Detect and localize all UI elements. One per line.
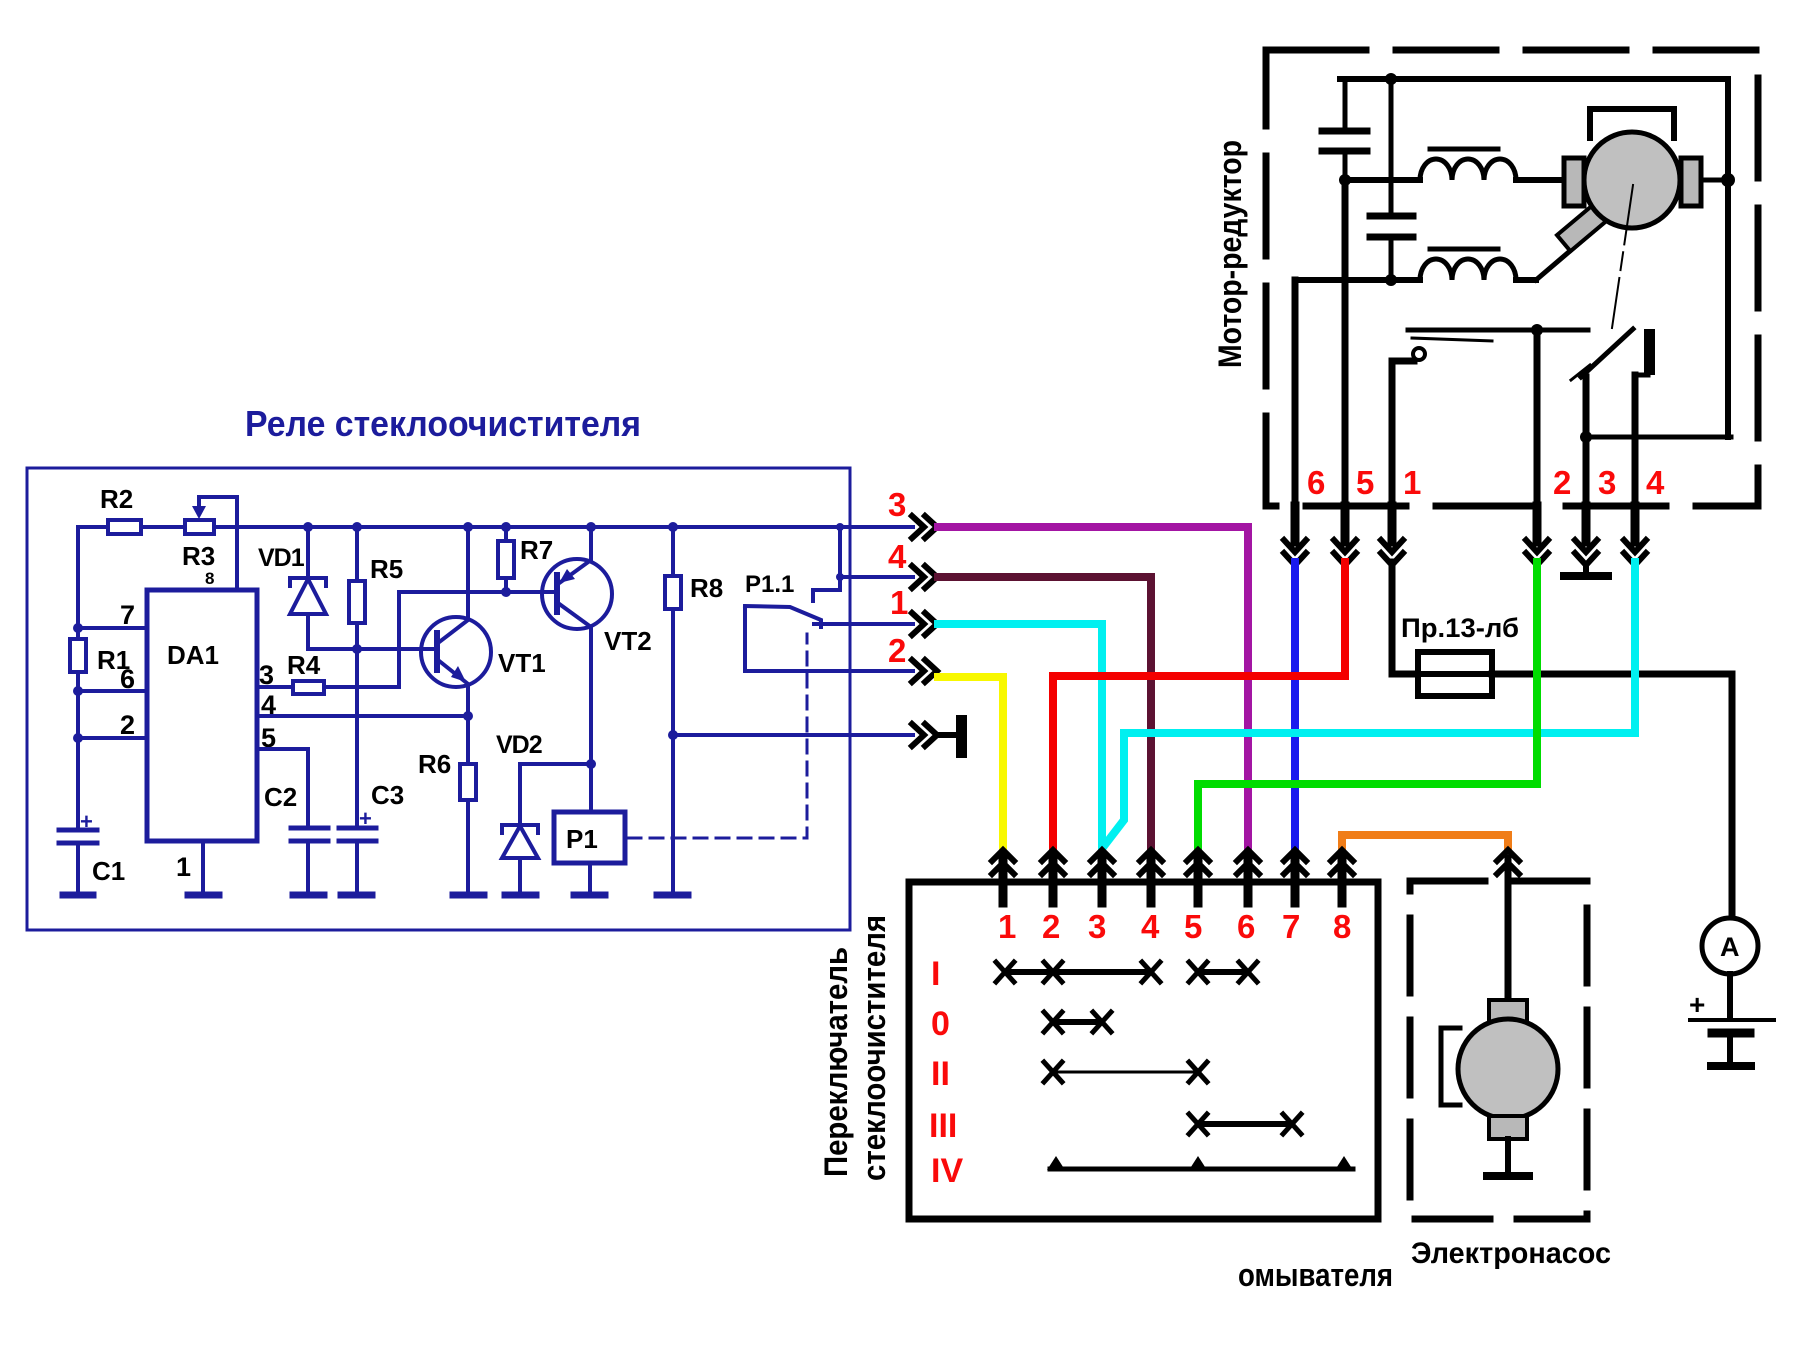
- electric pump dashed box: [1410, 881, 1587, 1219]
- row label I: [931, 955, 940, 993]
- svg-text:R5: R5: [370, 554, 403, 584]
- node pin6: [73, 686, 147, 696]
- arrow ground out: [912, 724, 937, 746]
- pin stub 3: [1582, 506, 1591, 542]
- svg-text:+: +: [359, 806, 372, 831]
- parking contact wiper bars: [1408, 330, 1588, 341]
- pin number 2: [1553, 464, 1571, 501]
- RELAY-BLOCK-START: [27, 403, 967, 930]
- row II contact line: [1044, 1062, 1207, 1082]
- svg-text:2: 2: [120, 710, 135, 740]
- arrow sw2 up: [1042, 850, 1064, 874]
- arrow pin3 down: [1575, 540, 1597, 565]
- arrow pin1 down: [1381, 540, 1403, 565]
- ammeter A: [1702, 918, 1758, 974]
- ground VD2: [505, 892, 536, 899]
- capacitor motor C-mid: [1370, 73, 1413, 286]
- svg-text:3: 3: [1598, 464, 1616, 501]
- pin number sw5: [1184, 908, 1202, 945]
- svg-text:стеклоочистителя: стеклоочистителя: [856, 915, 892, 1181]
- svg-text:6: 6: [120, 664, 135, 694]
- inductor L2: [1420, 249, 1516, 280]
- label Электронасос: [1411, 1237, 1611, 1270]
- stator bracket: [1590, 109, 1674, 138]
- pump motor top block: [1489, 1000, 1527, 1023]
- arrow out1: [912, 613, 937, 635]
- wire: +12V bus: [78, 525, 850, 529]
- arrow out3: [912, 516, 937, 538]
- node pin7: [73, 623, 147, 633]
- pin number sw4: [1141, 908, 1160, 945]
- wire blue motor pin6 to switch pin7: [1291, 562, 1299, 848]
- pin number sw1: [998, 908, 1016, 945]
- ground battery: [1711, 1062, 1751, 1070]
- inner box top edge: [1340, 76, 1728, 82]
- ground C3: [341, 892, 372, 899]
- pin stub 1: [1388, 506, 1397, 542]
- svg-text:DA1: DA1: [167, 640, 219, 670]
- svg-text:Мотор-редуктор: Мотор-редуктор: [1212, 140, 1248, 368]
- svg-text:4: 4: [888, 538, 907, 575]
- pump stator bracket: [1441, 1028, 1460, 1105]
- svg-text:1: 1: [998, 908, 1016, 945]
- svg-text:3: 3: [888, 486, 906, 523]
- wire R5/C3 vertical: [355, 649, 359, 828]
- svg-text:R6: R6: [418, 749, 451, 779]
- label Мотор-редуктор: [1212, 140, 1248, 368]
- row I contact line b: [1189, 962, 1257, 982]
- potentiometer R3: [182, 497, 237, 590]
- label омывателя: [1238, 1257, 1393, 1293]
- ground symbol chassis: [940, 715, 967, 758]
- arrow sw3 up: [1091, 850, 1113, 874]
- node upper winding: [1339, 174, 1351, 186]
- wire lower winding line: [1295, 277, 1536, 283]
- svg-text:R3: R3: [182, 541, 215, 571]
- svg-text:R8: R8: [690, 573, 723, 603]
- ground pin1: [188, 892, 219, 899]
- arrow sw7 up: [1284, 850, 1306, 874]
- svg-text:R2: R2: [100, 484, 133, 514]
- svg-text:Реле стеклоочистителя: Реле стеклоочистителя: [245, 403, 641, 444]
- wire pin6 vertical: [1292, 280, 1299, 506]
- svg-text:III: III: [929, 1107, 957, 1145]
- ground C2: [293, 892, 324, 899]
- row label IV: [931, 1152, 963, 1190]
- wire third brush diagonal: [1536, 222, 1604, 280]
- pin number 6: [1307, 464, 1325, 501]
- arrow sw8 up: [1331, 850, 1353, 874]
- diode VD1 zener: [258, 522, 326, 649]
- svg-text:P1.1: P1.1: [745, 571, 794, 598]
- pin number sw7: [1282, 908, 1300, 945]
- MOTOR-BLOCK-START: [1212, 50, 1774, 1066]
- wire VD1 to VT1 base: [308, 644, 437, 654]
- pump motor bottom block: [1489, 1116, 1527, 1139]
- row IV contact line: [1047, 1156, 1353, 1170]
- svg-text:IV: IV: [931, 1152, 963, 1190]
- transistor VT1: [421, 522, 546, 716]
- resistor R7: [498, 522, 553, 597]
- wire DA1 pin1 to ground: [201, 841, 205, 895]
- op-amp/IC DA1: [120, 590, 276, 882]
- svg-text:2: 2: [1553, 464, 1571, 501]
- ground P1: [574, 892, 605, 899]
- pin stub sw4: [1147, 858, 1156, 903]
- brush right: [1681, 158, 1701, 206]
- wire motor to right edge: [1701, 173, 1735, 187]
- diode VD2 zener: [496, 731, 596, 895]
- pin stub sw2: [1049, 858, 1058, 903]
- wire pin4 vertical: [1632, 375, 1639, 506]
- switch box: [909, 882, 1378, 1219]
- resistor R5: [349, 522, 403, 649]
- svg-text:8: 8: [1333, 908, 1351, 945]
- ground pin3: [1564, 565, 1608, 576]
- pin stub 2: [1533, 506, 1542, 542]
- svg-text:VD2: VD2: [496, 731, 542, 759]
- wire pin1 to fuse: [1392, 562, 1418, 674]
- wire orange switch pin8 to pump: [1342, 835, 1508, 850]
- svg-text:1: 1: [890, 584, 908, 621]
- svg-text:1: 1: [176, 852, 191, 882]
- arrow pin4 down: [1624, 540, 1646, 565]
- ground R6: [453, 892, 484, 899]
- wire red motor pin5 to switch pin2: [1053, 562, 1345, 848]
- wire pin2 vertical: [1534, 330, 1541, 506]
- wire pin5 vertical: [1342, 180, 1349, 506]
- dashed link P1 to P1.1: [628, 634, 807, 838]
- svg-text:II: II: [931, 1055, 950, 1093]
- svg-text:Переключатель: Переключатель: [818, 947, 854, 1177]
- capacitor C2: [264, 782, 328, 895]
- row label II: [931, 1055, 950, 1093]
- pin number 4: [1646, 464, 1665, 501]
- ground C1: [63, 892, 93, 899]
- row label 0: [931, 1005, 950, 1043]
- relay contact P1.1: [745, 523, 844, 671]
- wire purple out3 to switch pin6: [938, 527, 1248, 848]
- svg-text:0: 0: [931, 1005, 950, 1043]
- row I contact line: [996, 962, 1160, 982]
- wire: left rail: [76, 527, 80, 830]
- wire DA1 pin3: [257, 592, 399, 687]
- svg-text:VD1: VD1: [258, 544, 305, 572]
- wire ammeter to battery: [1727, 974, 1733, 1019]
- pump motor circle: [1458, 1019, 1558, 1119]
- svg-text:+: +: [80, 809, 93, 834]
- pin number 1: [1403, 464, 1421, 501]
- pin stub 5: [1341, 506, 1350, 542]
- svg-text:VT2: VT2: [604, 626, 652, 656]
- arrow sw5 up: [1187, 850, 1209, 874]
- arrow pump up: [1497, 850, 1519, 874]
- row 0 contact line: [1044, 1012, 1111, 1032]
- svg-text:R4: R4: [287, 650, 321, 680]
- wire R7 to VT2 base: [399, 590, 557, 594]
- ground R8: [657, 892, 688, 899]
- pin stub sw6: [1244, 858, 1253, 903]
- resistor R8: [665, 522, 723, 895]
- svg-text:Электронасос: Электронасос: [1411, 1237, 1611, 1270]
- svg-text:5: 5: [1184, 908, 1202, 945]
- svg-text:7: 7: [120, 600, 135, 630]
- arrow pin2 down: [1526, 540, 1548, 565]
- node pin2 tap: [1531, 324, 1543, 336]
- inner box right edge: [1725, 79, 1731, 437]
- pin number sw8: [1333, 908, 1351, 945]
- svg-text:A: A: [1720, 932, 1740, 962]
- svg-text:Пр.13-лб: Пр.13-лб: [1401, 613, 1519, 643]
- svg-text:C1: C1: [92, 856, 125, 886]
- label Переключатель vertical: [818, 947, 854, 1177]
- svg-text:C2: C2: [264, 782, 297, 812]
- pin number sw2: [1042, 908, 1060, 945]
- WIRES-BLOCK-START: [938, 527, 1635, 850]
- battery GB: [1689, 989, 1774, 1063]
- row III contact line: [1189, 1114, 1301, 1134]
- pin number sw6: [1237, 908, 1255, 945]
- output 3 line: [850, 486, 913, 527]
- wire DA1 pin4: [257, 711, 473, 721]
- pin number 5: [1356, 464, 1374, 501]
- capacitor motor C-top: [1322, 79, 1367, 180]
- relay coil P1: [554, 812, 625, 895]
- row label III: [929, 1107, 957, 1145]
- pin stub sw8: [1338, 858, 1347, 903]
- wire pump feed: [1505, 858, 1512, 1000]
- pin stub sw5: [1194, 858, 1203, 903]
- PUMP-BLOCK-START: [1410, 850, 1611, 1270]
- capacitor C3: [339, 780, 404, 895]
- wire arm to pin3: [1580, 377, 1592, 506]
- pin stub sw1: [999, 858, 1008, 903]
- svg-text:P1: P1: [566, 824, 598, 854]
- pin stub sw3: [1098, 858, 1107, 903]
- svg-text:7: 7: [1282, 908, 1300, 945]
- third brush pad: [1557, 206, 1606, 252]
- wire pump to ground: [1505, 1139, 1511, 1173]
- pin number 3: [1598, 464, 1616, 501]
- brush left: [1564, 158, 1584, 206]
- wire pin1 riser and pivot: [1392, 348, 1425, 506]
- node pin2: [73, 733, 147, 743]
- wire green motor pin2 to switch pin5: [1198, 562, 1537, 848]
- svg-text:I: I: [931, 955, 940, 993]
- wire cyan motor pin4 to switch pin3: [1104, 562, 1635, 846]
- arrow sw6 up: [1237, 850, 1259, 874]
- resistor R1: [70, 639, 130, 675]
- output 2 line: [745, 632, 913, 671]
- capacitor C1: [59, 809, 125, 895]
- arrow out4: [912, 566, 937, 588]
- output 1 line: [814, 584, 913, 624]
- label стеклоочистителя vertical: [856, 915, 892, 1181]
- motor armature circle: [1584, 132, 1680, 228]
- pin stub 6: [1291, 506, 1300, 542]
- svg-text:VT1: VT1: [498, 648, 546, 678]
- svg-text:6: 6: [1307, 464, 1325, 501]
- pin number sw3: [1088, 908, 1106, 945]
- inductor L1: [1420, 149, 1516, 180]
- resistor R2: [100, 484, 141, 534]
- svg-text:6: 6: [1237, 908, 1255, 945]
- SWITCH-BLOCK-START: [818, 850, 1393, 1293]
- arrow pin6 down: [1284, 540, 1306, 565]
- arrow sw1 up: [992, 850, 1014, 874]
- wire contact line to right edge: [1586, 435, 1731, 440]
- svg-text:4: 4: [1646, 464, 1665, 501]
- relay box outline: [27, 468, 850, 930]
- output ground line: [673, 733, 913, 737]
- wire fuse to ammeter: [1492, 674, 1732, 919]
- arrow sw4 up: [1140, 850, 1162, 874]
- arrow pin5 down: [1334, 540, 1356, 565]
- resistor R4: [287, 650, 324, 694]
- mechanical link line: [1612, 185, 1633, 328]
- svg-text:C3: C3: [371, 780, 404, 810]
- wire DA1 pin5: [257, 749, 308, 828]
- wire maroon out4 to switch pin4: [938, 577, 1151, 848]
- svg-text:3: 3: [1088, 908, 1106, 945]
- svg-text:+: +: [1689, 989, 1705, 1020]
- svg-text:2: 2: [1042, 908, 1060, 945]
- fuse Пр.13-лб: [1401, 613, 1519, 696]
- svg-text:R7: R7: [520, 535, 553, 565]
- pin stub 4: [1631, 506, 1640, 542]
- pin stub sw7: [1291, 858, 1300, 903]
- ground pump: [1487, 1172, 1529, 1180]
- resistor R6: [418, 716, 476, 895]
- output 4 line: [836, 538, 913, 581]
- svg-text:1: 1: [1403, 464, 1421, 501]
- fixed contact bar: [1635, 329, 1655, 375]
- svg-text:омывателя: омывателя: [1238, 1257, 1393, 1293]
- svg-text:8: 8: [205, 569, 214, 588]
- wire cyan out1 to switch pin3: [938, 624, 1102, 848]
- wire yellow out2 to switch pin1: [938, 677, 1003, 848]
- motor-reductor dashed box: [1266, 50, 1758, 506]
- wire upper winding line: [1345, 177, 1564, 183]
- svg-text:4: 4: [1141, 908, 1160, 945]
- arrow out2: [912, 660, 937, 682]
- svg-text:5: 5: [1356, 464, 1374, 501]
- parking switch arm: [1571, 329, 1633, 380]
- transistor VT2: [542, 522, 652, 812]
- svg-text:2: 2: [888, 632, 906, 669]
- title: Реле стеклоочистителя: [245, 403, 641, 444]
